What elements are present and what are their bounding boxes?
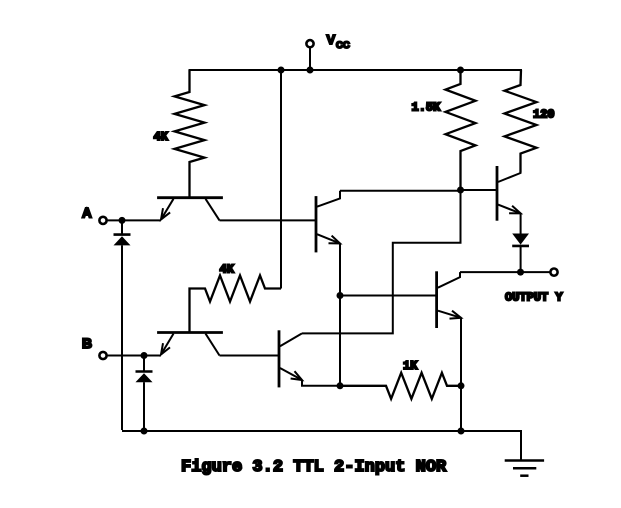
svg-text:B: B xyxy=(82,335,92,351)
svg-text:CC: CC xyxy=(336,40,350,51)
svg-text:OUTPUT Y: OUTPUT Y xyxy=(505,291,563,305)
wire Q4 collector to node R3/Q5 xyxy=(302,191,461,334)
transistor Q2 collector xyxy=(317,191,340,207)
diode D2 (input B clamp) xyxy=(136,356,153,432)
transistor Q6 emitter xyxy=(438,311,461,319)
resistor R2 4K (input B base resistor) xyxy=(190,276,282,332)
ground rail xyxy=(122,431,521,461)
svg-text:A: A xyxy=(82,206,92,221)
svg-text:V: V xyxy=(327,32,336,47)
ground symbol xyxy=(505,461,544,476)
VCC terminal xyxy=(306,40,313,70)
diode D1 (input A clamp) xyxy=(114,220,131,430)
wire Q6 emitter to ground rail xyxy=(460,318,462,431)
input B terminal xyxy=(99,352,106,359)
transistor Q6 (output pull-down) base bar xyxy=(435,273,438,327)
svg-text:120: 120 xyxy=(533,108,555,122)
transistor Q1 (input A) base bar xyxy=(159,196,222,199)
node diode D3 / output junction xyxy=(517,269,524,276)
wire Q4 emitter to 1K node xyxy=(302,380,340,386)
resistor R3 1.5K (phase splitter collector load) xyxy=(446,70,476,190)
node Q6 emitter / ground rail junction xyxy=(458,428,465,435)
svg-text:1.5K: 1.5K xyxy=(412,101,442,115)
wire input B to Q3 emitter xyxy=(107,355,161,357)
wire top VCC rail xyxy=(190,69,522,71)
transistor Q4 (phase splitter B) base bar xyxy=(278,332,281,386)
transistor Q6 collector xyxy=(438,272,460,288)
node Q2 emitter / Q6 base junction xyxy=(337,292,344,299)
resistor R4 120 (output collector resistor) xyxy=(505,70,537,173)
input A terminal xyxy=(99,217,106,224)
wire Q1 collector to Q2 base xyxy=(220,219,316,221)
transistor Q3 (input B) base bar xyxy=(159,331,222,334)
node diode D2 to ground rail junction xyxy=(141,428,148,435)
wire riser rail to R2 (4K horizontal) xyxy=(280,70,282,289)
transistor Q3 emitter xyxy=(161,334,174,355)
node R5 / Q6 emitter junction xyxy=(458,382,465,389)
node rail-to-R3 junction xyxy=(457,67,464,74)
node rail-to-R2 riser junction xyxy=(278,67,285,74)
node VCC stub junction xyxy=(307,67,314,74)
resistor R5 1K (pulldown) xyxy=(340,373,461,399)
transistor Q5 emitter xyxy=(498,205,521,214)
wire Q2 emitter down to 1K node xyxy=(339,243,341,386)
transistor Q5 (output pull-up) base bar xyxy=(496,167,499,219)
node Q2/Q4 emitters / R5 junction xyxy=(337,382,344,389)
wire Q5 base lead xyxy=(461,189,497,191)
transistor Q4 collector xyxy=(280,333,302,346)
wire input A to Q1 emitter xyxy=(107,219,161,221)
svg-text:Figure 3.2 TTL 2-Input NOR: Figure 3.2 TTL 2-Input NOR xyxy=(181,458,447,477)
wire Q3 collector to Q4 base xyxy=(220,355,279,357)
node input B / diode D2 junction xyxy=(141,352,148,359)
node input A / diode D1 junction xyxy=(119,217,126,224)
wire Q2 collector to node R3/Q5 xyxy=(340,190,461,192)
wire Q6 base lead xyxy=(340,295,436,297)
transistor Q1 emitter xyxy=(161,199,174,220)
output terminal xyxy=(550,269,557,276)
transistor Q2 (phase splitter A) base bar xyxy=(315,198,318,252)
svg-text:4K: 4K xyxy=(154,130,169,144)
resistor R1 4K (input A base resistor) xyxy=(175,70,205,197)
svg-text:4K: 4K xyxy=(220,263,235,277)
transistor Q3 collector xyxy=(206,334,220,356)
VCC label xyxy=(327,32,350,51)
transistor Q1 collector xyxy=(206,199,220,221)
svg-text:1K: 1K xyxy=(403,359,418,373)
transistor Q4 emitter xyxy=(280,368,302,380)
node R3 / Q5 base / phase splitter collectors junction xyxy=(457,187,464,194)
transistor Q2 emitter xyxy=(317,234,340,243)
wire Q6 collector to output xyxy=(460,271,550,273)
transistor Q5 collector xyxy=(498,154,521,183)
diode D3 (output level shift) xyxy=(512,213,529,272)
